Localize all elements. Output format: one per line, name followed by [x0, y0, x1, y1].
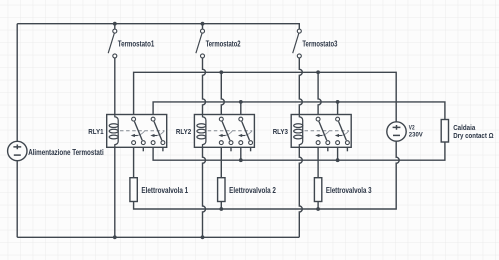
wire top rail: [17, 24, 299, 29]
switch S2 Termostato2: [196, 29, 205, 58]
relay RLY2: [194, 115, 254, 148]
wire RLY2 sw2 drop to dry contact rail: [240, 145, 242, 160]
wire left vertical from source V1 to bottom rail: [16, 161, 18, 238]
wire RLY1 sw1 to valve 1: [133, 145, 135, 178]
svg-text:Elettrovalvola 2: Elettrovalvola 2: [229, 186, 276, 195]
wire RLY2 sw1 to valve 2: [220, 145, 222, 178]
relay RLY1 contact A: [131, 117, 146, 144]
wire valve 3 bottom drop: [317, 202, 319, 210]
junction bottom rail coil1: [113, 235, 117, 239]
wire bottom rail: [17, 236, 299, 238]
wire T1 stub rail to switch: [114, 24, 116, 29]
wire RLY3 sw2 NC stub: [346, 145, 348, 152]
valve load Elettrovalvola 3: [314, 178, 321, 202]
relay RLY1 contact B: [150, 117, 165, 144]
wire RLY2 sw1 NC stub: [230, 145, 232, 152]
wire drop rail A to RLY3 sw1 (hop over rail B): [318, 72, 321, 117]
junction bottom rail coil2: [201, 235, 205, 239]
relay RLY1: [107, 115, 167, 148]
source V1 Alimentazione Termostati: [8, 141, 27, 160]
junction valve rail valve2: [219, 207, 223, 211]
valve load Elettrovalvola 1: [130, 178, 137, 202]
switch S3 Termostato3: [293, 29, 302, 58]
relay RLY1 actuator dashed link: [120, 131, 165, 136]
wire valve 2 bottom drop: [220, 202, 222, 210]
svg-text:Elettrovalvola 1: Elettrovalvola 1: [141, 186, 188, 195]
wire RLY3 coil bottom to bottom rail (hops): [299, 145, 302, 238]
wire rail A (V2 plus to relay sw1 commons) y=72.3: [134, 72, 397, 122]
wire RLY1 sw1 NC stub: [142, 145, 144, 152]
junction T2 top rail: [201, 22, 205, 26]
svg-text:RLY3: RLY3: [273, 127, 288, 136]
wire RLY2 sw2 NC stub: [250, 145, 252, 152]
junction dry contact rail RLY2: [239, 158, 243, 162]
relay RLY3: [291, 115, 351, 148]
wire T1 switch to relay RLY1 coil: [114, 58, 116, 117]
svg-text:Dry contact Ω: Dry contact Ω: [453, 131, 493, 140]
wire left vertical from top rail to source V1: [16, 24, 18, 142]
wire drop rail B to RLY3 sw2: [337, 102, 339, 117]
svg-text:Termostato3: Termostato3: [302, 40, 337, 49]
wire RLY1 coil bottom to bottom rail: [114, 145, 116, 238]
svg-text:Termostato2: Termostato2: [206, 40, 241, 49]
valve load Elettrovalvola 2: [218, 178, 225, 202]
wire RLY3 sw1 NC stub: [327, 145, 329, 152]
junction rail B RLY2: [239, 100, 243, 104]
wire T2 stub rail to switch: [202, 24, 204, 29]
junction T1 top rail: [113, 22, 117, 26]
junction rail A RLY3: [316, 70, 320, 74]
wire dry contact rail y=160.2 from RLY1 sw2 to caldaia: [153, 142, 445, 160]
switch S1 Termostato1: [108, 29, 117, 58]
svg-text:230V: 230V: [409, 131, 423, 138]
junction dry contact rail RLY3: [336, 158, 340, 162]
svg-text:RLY1: RLY1: [88, 127, 103, 136]
wire rail B (caldaia to relay sw2 commons) y=101.9: [153, 102, 445, 120]
wire drop rail A to RLY2 sw1 (hop over rail B): [221, 72, 224, 117]
wire drop rail B to RLY2 sw2: [240, 102, 242, 117]
wire RLY1 sw2 NC stub: [162, 145, 164, 152]
relay RLY1 body: [107, 115, 167, 148]
wire valve return rail y=209 to V2 bottom (hop over dry contact rail): [134, 141, 400, 209]
source V2 230V: [387, 122, 406, 141]
svg-text:Alimentazione Termostati: Alimentazione Termostati: [28, 148, 104, 157]
wire RLY3 sw1 to valve 3: [317, 145, 319, 178]
junction rail B RLY3: [336, 100, 340, 104]
svg-text:Termostato1: Termostato1: [118, 40, 155, 49]
svg-text:Elettrovalvola 3: Elettrovalvola 3: [326, 186, 372, 195]
svg-text:RLY2: RLY2: [176, 127, 191, 136]
junction valve rail valve3: [316, 207, 320, 211]
wire RLY2 coil bottom to bottom rail (hops): [203, 145, 206, 238]
wire T3 switch to relay RLY3 coil (hops over rails): [299, 58, 302, 117]
junction rail A RLY2: [219, 70, 223, 74]
relay RLY1 coil: [109, 115, 118, 148]
wire T2 switch to relay RLY2 coil (hops over rails): [203, 58, 206, 117]
load Caldaia dry contact: [441, 120, 448, 143]
wire RLY3 sw2 drop to dry contact rail: [337, 145, 339, 160]
